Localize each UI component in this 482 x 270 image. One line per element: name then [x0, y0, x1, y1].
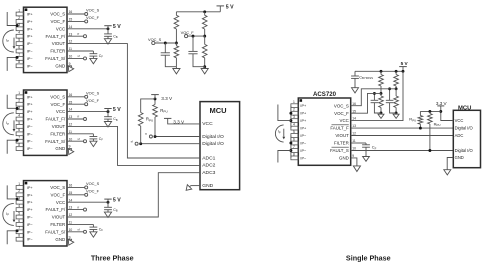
wire ADC2 from U2 VIOUT [67, 126, 200, 165]
svg-text:CF: CF [372, 145, 377, 151]
svg-text:14: 14 [352, 117, 356, 121]
svg-text:15: 15 [69, 18, 73, 22]
wire U3 VOC_F to terminal [67, 194, 85, 196]
svg-text:VOC_F: VOC_F [181, 30, 195, 35]
resistor R8 (U4 VOC_S divider bottom) [395, 89, 397, 96]
node U4 VOC_S bottom [395, 112, 398, 115]
ground U3 filter cap [92, 230, 94, 232]
svg-text:ACS720: ACS720 [313, 91, 337, 98]
svg-text:12: 12 [69, 40, 73, 44]
svg-text:FAULT_F/: FAULT_F/ [46, 117, 66, 122]
svg-text:Digital I/O: Digital I/O [455, 148, 474, 153]
wire VOC_S mid to terminal [153, 42, 176, 44]
wire U3 VOC_S to terminal [67, 186, 85, 188]
node FAULT_S terminal U1 [84, 57, 87, 60]
ground MCU single phase [446, 169, 448, 171]
svg-text:GND: GND [339, 156, 349, 161]
svg-text:GND: GND [55, 146, 65, 151]
svg-text:CF: CF [99, 54, 104, 59]
svg-text:IP−: IP− [27, 238, 34, 242]
svg-text:15: 15 [69, 100, 73, 104]
node rail junction [203, 10, 206, 13]
node RPU3 bottom [428, 149, 431, 152]
node U2 IP+ junction [16, 107, 19, 110]
wire U2 VOC_F to terminal [67, 103, 85, 105]
wire U4 FAULT_S to MCU [351, 150, 454, 152]
node VOC_S terminal U1 [85, 13, 88, 16]
svg-text:IP−: IP− [27, 230, 34, 234]
svg-text:16: 16 [69, 184, 73, 188]
ground VOC_F divider [204, 67, 206, 69]
svg-text:14: 14 [69, 108, 73, 112]
svg-text:IP+: IP+ [300, 104, 307, 108]
svg-text:16: 16 [69, 10, 73, 14]
svg-text:VOC_S: VOC_S [50, 12, 65, 17]
svg-text:CB: CB [113, 34, 118, 39]
capacitor CB U3 bypass [107, 202, 109, 207]
resistor R6 (U4 VOC_F divider bottom) [380, 93, 382, 96]
svg-text:IP+: IP+ [27, 118, 34, 122]
resistor RPU3 (FAULT_S pull-up) [429, 111, 431, 113]
svg-text:VOC_F: VOC_F [86, 98, 100, 103]
U3 Ip current direction arrow [13, 211, 15, 220]
5V supply U3 [107, 199, 109, 202]
svg-text:ff: ff [145, 132, 147, 136]
U1 Ip current direction arrow [13, 38, 15, 47]
svg-text:5 V: 5 V [113, 24, 121, 30]
svg-text:VIOUT: VIOUT [335, 133, 349, 138]
node RPU3 top [428, 110, 431, 113]
ground U4 VOC_F divider [380, 113, 382, 114]
U2 primary current arc Ip [3, 113, 14, 135]
node U3 IP+ junction [16, 197, 19, 200]
svg-text:FAULT_S/: FAULT_S/ [45, 229, 66, 234]
svg-text:VOC_S: VOC_S [86, 8, 100, 13]
svg-text:VCC: VCC [340, 118, 349, 123]
svg-text:IP+: IP+ [300, 112, 307, 116]
svg-text:9: 9 [69, 145, 71, 149]
svg-text:1: 1 [18, 182, 20, 186]
svg-text:IP+: IP+ [27, 35, 34, 39]
node fault_s terminal [135, 142, 138, 145]
U4 left pin stubs 1-8 [291, 104, 298, 108]
svg-text:RPU: RPU [409, 117, 416, 123]
svg-text:ff: ff [77, 115, 79, 119]
U4 primary IP+ feed wire [278, 105, 291, 121]
node RPU4 bottom [419, 127, 422, 130]
svg-text:CF: CF [99, 137, 104, 142]
node FAULT_F terminal U3 [84, 208, 87, 211]
svg-text:7: 7 [293, 145, 295, 149]
node U1 IP- junction [16, 56, 19, 59]
resistor R7 (U4 VOC_S divider top) [395, 71, 397, 74]
ground U2 bypass cap [107, 119, 109, 121]
svg-text:1: 1 [18, 91, 20, 95]
svg-text:6: 6 [293, 137, 295, 141]
resistor R2 (VOC_S divider bottom) [175, 43, 177, 46]
U3 primary IP+ feed wire [7, 185, 16, 199]
svg-text:VOC_F: VOC_F [86, 15, 100, 20]
svg-text:IP+: IP+ [27, 208, 34, 212]
svg-text:CBYPASS: CBYPASS [359, 74, 373, 80]
svg-text:3.3 V: 3.3 V [161, 96, 173, 101]
node VOC_S terminal [152, 41, 155, 44]
svg-text:9: 9 [352, 154, 354, 158]
svg-text:sf: sf [77, 137, 80, 141]
node FAULT_F terminal U2 [84, 118, 87, 121]
svg-text:CF: CF [99, 227, 104, 232]
svg-text:9: 9 [69, 62, 71, 66]
node VOC_F terminal U1 [85, 20, 88, 23]
node VOC_F terminal U2 [85, 103, 88, 106]
svg-text:FAULT_F/: FAULT_F/ [46, 207, 66, 212]
svg-text:VCC: VCC [202, 121, 213, 127]
svg-text:15: 15 [352, 109, 356, 113]
svg-text:6: 6 [18, 45, 20, 49]
node VOC_F terminal [185, 35, 188, 38]
svg-text:MCU: MCU [209, 106, 226, 115]
svg-text:Digital I/O: Digital I/O [455, 126, 474, 131]
svg-text:16: 16 [352, 102, 356, 106]
svg-text:5: 5 [18, 211, 20, 215]
wire U2 FILTER to CF [67, 133, 93, 135]
svg-text:RPU: RPU [160, 108, 167, 114]
ACS720 sensor U1 (phase 1) [24, 7, 68, 72]
svg-text:Digital I/O: Digital I/O [202, 134, 224, 140]
svg-text:CB: CB [113, 117, 118, 122]
svg-text:7: 7 [18, 53, 20, 57]
svg-text:2: 2 [293, 108, 295, 112]
node U4 VOC_F bottom [380, 112, 383, 115]
wire U1 FILTER to CF [67, 50, 93, 52]
U4 primary current arc Ip [275, 125, 283, 142]
svg-text:VOC_S: VOC_S [86, 181, 100, 186]
wire 3.3V to MCU VCC [441, 106, 454, 121]
svg-text:VOC_F: VOC_F [51, 192, 66, 197]
resistor RPU2 pull-up [141, 99, 155, 113]
wire Digital I/O 1 (fault_f net) [155, 136, 200, 138]
svg-text:8: 8 [18, 234, 20, 238]
ground CBYPASS [354, 78, 356, 87]
svg-text:IP−: IP− [300, 134, 307, 138]
ACS720 sensor U2 (phase 2) [24, 90, 68, 155]
svg-text:RPU: RPU [146, 117, 153, 123]
capacitor CBYPASS [354, 71, 356, 76]
MCU single phase [453, 110, 480, 167]
ground VOC_S divider [175, 67, 177, 69]
svg-text:VIOUT: VIOUT [52, 124, 66, 129]
node FAULT_S terminal U2 [84, 140, 87, 143]
svg-text:VCC: VCC [56, 26, 65, 31]
svg-text:7: 7 [18, 136, 20, 140]
node cap junction VOC_S [164, 42, 167, 45]
wire U4 VOC_F to divider [351, 93, 381, 113]
svg-text:14: 14 [69, 198, 73, 202]
node U4 VOC_S mid [395, 87, 398, 90]
svg-text:5 V: 5 V [226, 4, 234, 10]
wire U1 GND pin [67, 65, 72, 67]
ground MCU three-phase [184, 183, 193, 192]
ground U4 GND [356, 165, 358, 167]
svg-text:13: 13 [69, 32, 73, 36]
svg-text:5: 5 [293, 130, 295, 134]
wire 5V rail three-phase dividers [176, 11, 220, 13]
svg-text:9: 9 [69, 235, 71, 239]
ACS720 sensor U3 (phase 3) [24, 181, 68, 246]
node VOC_S terminal U2 [85, 95, 88, 98]
svg-text:FAULT_S/: FAULT_S/ [45, 56, 66, 61]
svg-text:IP−: IP− [27, 216, 34, 220]
ground U2 GND pin [66, 147, 75, 156]
svg-text:MCU: MCU [458, 105, 471, 111]
wire U4 VOC_S to divider [351, 89, 396, 106]
capacitor CF U1 filter [92, 51, 94, 54]
svg-text:15: 15 [69, 191, 73, 195]
wire ADC3 from U3 VIOUT [67, 173, 200, 217]
wire U2 GND pin [67, 148, 72, 150]
5V supply single phase [402, 67, 404, 72]
U4 Ip current direction arrow [283, 129, 285, 137]
U3 left pin stubs 1-8 [16, 186, 23, 190]
MCU three-phase [200, 102, 240, 190]
svg-text:IP+: IP+ [300, 127, 307, 131]
svg-text:FILTER: FILTER [50, 49, 65, 54]
capacitor C2 (VOC_F) [192, 36, 194, 51]
svg-text:FILTER: FILTER [50, 222, 65, 227]
U4 IP+ bus [290, 106, 292, 128]
wire U3 GND pin [67, 238, 72, 240]
wire U2 VCC to 5V [67, 111, 108, 113]
svg-text:12: 12 [69, 213, 73, 217]
svg-text:10: 10 [69, 55, 73, 59]
node RPU1 junction [154, 135, 157, 138]
svg-text:VOC_S: VOC_S [148, 37, 162, 42]
svg-text:IP−: IP− [27, 42, 34, 46]
svg-text:IP+: IP+ [27, 13, 34, 17]
svg-text:VIOUT: VIOUT [52, 41, 66, 46]
U1 left pin stubs 1-8 [16, 12, 23, 16]
svg-text:IP−: IP− [27, 223, 34, 227]
svg-text:5 V: 5 V [401, 61, 409, 66]
wire MCU single GND [447, 158, 453, 170]
wire MCU GND [191, 185, 200, 187]
U2 primary IP+ feed wire [7, 95, 16, 109]
ground CF single phase [365, 147, 367, 156]
svg-text:11: 11 [69, 47, 73, 51]
wire Digital I/O 2 (fault_s net) [141, 143, 200, 145]
wire U1 VOC_S to terminal [67, 13, 85, 15]
svg-text:IP+: IP+ [27, 201, 34, 205]
svg-text:IP+: IP+ [27, 193, 34, 197]
svg-text:13: 13 [69, 115, 73, 119]
node VOC_F terminal U3 [85, 193, 88, 196]
svg-text:14: 14 [69, 25, 73, 29]
svg-text:RPU: RPU [434, 121, 441, 127]
svg-text:IP−: IP− [27, 64, 34, 68]
capacitor CF single phase [365, 143, 367, 145]
svg-text:11: 11 [352, 139, 356, 143]
svg-text:11: 11 [69, 130, 73, 134]
svg-text:8: 8 [18, 143, 20, 147]
svg-text:12: 12 [352, 132, 356, 136]
capacitor C5 (U4 VOC_F) [373, 93, 375, 100]
wire U1 VOC_F to terminal [67, 20, 85, 22]
wire U1 FAULT_F to terminal [67, 35, 84, 37]
svg-text:16: 16 [69, 93, 73, 97]
svg-text:7: 7 [18, 226, 20, 230]
svg-text:IP−: IP− [27, 132, 34, 136]
svg-text:13: 13 [352, 124, 356, 128]
node U4 VOC_F cap junction [373, 92, 376, 95]
svg-text:IP+: IP+ [27, 95, 34, 99]
U4 FAULT_F overline [332, 124, 349, 126]
node VOC_S terminal U3 [85, 186, 88, 189]
5V supply U2 [107, 109, 109, 112]
3.3V supply MCU VCC [168, 118, 200, 124]
svg-text:6: 6 [18, 219, 20, 223]
svg-text:FILTER: FILTER [50, 131, 65, 136]
svg-text:sf: sf [77, 228, 80, 232]
5V supply three-phase dividers [219, 6, 221, 12]
svg-text:IP+: IP+ [27, 186, 34, 190]
svg-text:1: 1 [293, 100, 295, 104]
wire U4 GND pin [351, 158, 357, 166]
node U4 VOC_S cap junction [388, 87, 391, 90]
ground U2 filter cap [92, 139, 94, 141]
svg-text:11: 11 [69, 221, 73, 225]
U3 primary IP- return wire [7, 231, 16, 245]
capacitor CF U3 filter [92, 224, 94, 227]
svg-text:IP−: IP− [300, 149, 307, 153]
svg-text:IP−: IP− [300, 156, 307, 160]
svg-text:Single Phase: Single Phase [346, 254, 391, 263]
svg-text:4: 4 [18, 113, 20, 117]
wire 5V rail single phase [355, 70, 403, 72]
wire U1 VCC to 5V [67, 28, 108, 30]
capacitor CF U2 filter [92, 134, 94, 137]
svg-text:IP+: IP+ [27, 110, 34, 114]
node rail 5V junction [402, 70, 405, 73]
svg-text:ff: ff [77, 32, 79, 36]
node cap junction VOC_F [192, 35, 195, 38]
capacitor C1 (VOC_S) [164, 43, 166, 53]
svg-text:8: 8 [18, 60, 20, 64]
svg-text:5 V: 5 V [113, 197, 121, 203]
svg-text:ADC1: ADC1 [202, 155, 215, 161]
svg-text:1: 1 [18, 8, 20, 12]
svg-text:IP+: IP+ [27, 20, 34, 24]
capacitor CB U2 bypass [107, 112, 109, 117]
svg-text:VOC_S: VOC_S [50, 185, 65, 190]
svg-text:VOC_F: VOC_F [51, 102, 66, 107]
svg-text:IP+: IP+ [27, 103, 34, 107]
wire U2 VOC_S to terminal [67, 96, 85, 98]
wire U4 FILTER to CF [351, 142, 366, 144]
svg-text:FILTER: FILTER [334, 141, 349, 146]
resistor RPU1 pull-up [154, 117, 156, 137]
svg-text:GND: GND [55, 237, 65, 242]
U4 IP- bus [290, 136, 292, 158]
ground U3 bypass cap [107, 210, 109, 212]
capacitor C6 (U4 VOC_S) [389, 89, 391, 101]
node U1 IP+ junction [16, 24, 19, 27]
svg-text:VOC_S: VOC_S [86, 91, 100, 96]
svg-text:IP: IP [278, 130, 281, 135]
ground U1 GND pin [66, 64, 75, 73]
svg-text:5: 5 [18, 38, 20, 42]
U2 primary IP- return wire [7, 140, 16, 154]
ground U1 bypass cap [107, 36, 109, 38]
svg-text:4: 4 [18, 31, 20, 35]
node FAULT_S terminal U3 [84, 230, 87, 233]
svg-text:CB: CB [113, 208, 118, 213]
svg-text:VCC: VCC [56, 109, 65, 114]
svg-text:VCC: VCC [56, 200, 65, 205]
svg-text:ff: ff [77, 205, 79, 209]
svg-text:FAULT_S: FAULT_S [330, 148, 349, 153]
resistor R1 (VOC_S divider top) [175, 12, 177, 16]
U2 left pin stubs 1-8 [16, 95, 23, 99]
svg-text:2: 2 [18, 189, 20, 193]
svg-text:ADC3: ADC3 [202, 170, 215, 176]
wire ADC1 from U1 VIOUT [67, 44, 200, 158]
U2 Ip current direction arrow [13, 120, 15, 129]
svg-text:Digital I/O: Digital I/O [202, 141, 224, 147]
svg-text:GND: GND [55, 63, 65, 68]
3.3V supply pullups [154, 95, 156, 99]
svg-text:5 V: 5 V [113, 107, 121, 113]
svg-text:IP−: IP− [27, 140, 34, 144]
svg-text:12: 12 [69, 123, 73, 127]
resistor R3 (VOC_F divider top) [204, 12, 206, 16]
svg-text:Three Phase: Three Phase [91, 253, 134, 262]
wire U3 FAULT_F to terminal [67, 209, 84, 211]
wire U3 FAULT_S to terminal [67, 231, 84, 233]
wire U2 FAULT_F to terminal [67, 118, 84, 120]
svg-text:3.3 V: 3.3 V [173, 119, 185, 124]
svg-text:3.3 V: 3.3 V [436, 101, 448, 106]
resistor RPU4 (FAULT_F pull-up) [419, 111, 421, 115]
U1 primary IP- return wire [7, 57, 16, 71]
svg-text:5: 5 [18, 121, 20, 125]
svg-text:sf: sf [77, 54, 80, 58]
svg-text:ADC: ADC [455, 133, 464, 138]
ground U4 VOC_S divider [395, 113, 397, 114]
svg-text:VOC_F: VOC_F [51, 19, 66, 24]
3.3V supply single phase [437, 105, 444, 107]
node VOC_S divider mid [175, 42, 178, 45]
wire U4 VCC to 5V rail [351, 71, 403, 120]
svg-text:FAULT_S/: FAULT_S/ [45, 139, 66, 144]
svg-text:FAULT_F: FAULT_F [330, 126, 349, 131]
svg-text:10: 10 [69, 228, 73, 232]
U1 primary IP+ feed wire [7, 12, 16, 26]
svg-text:2: 2 [18, 99, 20, 103]
wire VOC_F mid to terminal [186, 35, 205, 37]
resistor R4 (VOC_F divider bottom) [204, 36, 206, 44]
ground U3 GND pin [66, 238, 75, 247]
U4 primary IP- return wire [278, 151, 291, 163]
svg-text:VOC_F: VOC_F [334, 111, 349, 116]
node RPU2 junction [139, 142, 142, 145]
svg-text:4: 4 [18, 204, 20, 208]
svg-text:10: 10 [352, 147, 356, 151]
svg-text:VCC: VCC [455, 118, 464, 123]
resistor R5 (U4 VOC_F divider top) [380, 71, 382, 74]
svg-text:VOC_F: VOC_F [86, 189, 100, 194]
svg-text:VIOUT: VIOUT [52, 215, 66, 220]
node rail R5 junction [380, 70, 383, 73]
